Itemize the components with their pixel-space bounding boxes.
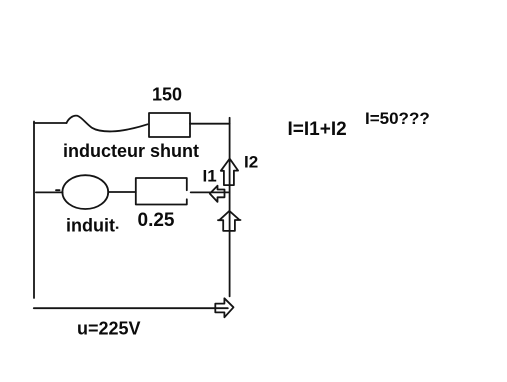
inductor L1 inducteur shunt (squiggle) <box>67 116 148 132</box>
svg-text:u=225V: u=225V <box>77 319 141 339</box>
svg-text:150: 150 <box>152 85 182 105</box>
wire middle left horizontal <box>36 191 63 193</box>
svg-text:I1: I1 <box>203 166 217 185</box>
current arrow I2 (up, outline) <box>221 159 238 186</box>
wire R2 to right vertical <box>191 191 230 193</box>
wire left vertical <box>33 122 35 299</box>
current arrow I1 (left, outline) <box>210 186 225 202</box>
svg-text:induit: induit <box>66 216 115 236</box>
resistor R1 150 (box) <box>149 113 190 137</box>
wire bottom horizontal <box>34 307 228 309</box>
source arrow u (right, outline) <box>215 298 233 317</box>
polarity dash near induit <box>56 189 60 191</box>
wire right vertical <box>229 118 231 297</box>
svg-text:I=50???: I=50??? <box>365 109 430 128</box>
svg-text:I=I1+I2: I=I1+I2 <box>288 119 347 140</box>
wire R1 to right vertical <box>190 123 230 125</box>
svg-text:0.25: 0.25 <box>138 210 175 231</box>
stray dot after induit <box>116 227 118 229</box>
svg-text:inducteur shunt: inducteur shunt <box>63 141 199 161</box>
svg-text:I2: I2 <box>244 153 258 172</box>
wire armature to R2 <box>108 191 136 193</box>
motor armature M induit (circle) <box>62 175 108 209</box>
resistor R2 0.25 (box with gap on right edge) <box>136 178 187 205</box>
current arrow I total (up, outline) <box>218 211 241 231</box>
wire top left horizontal <box>34 122 67 124</box>
